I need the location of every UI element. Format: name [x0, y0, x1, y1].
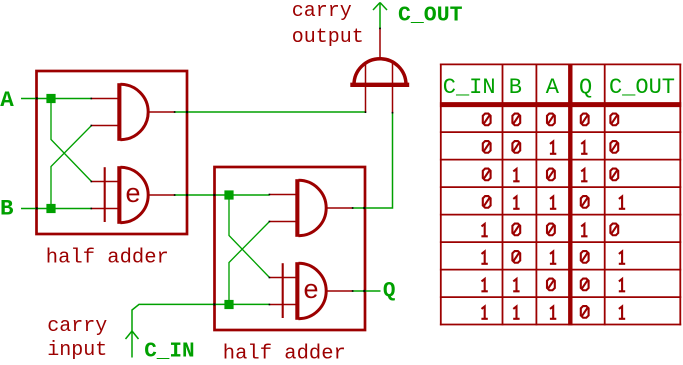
wire net sum1 cross	[229, 195, 270, 278]
wire/pin crossing dots	[36, 28, 394, 306]
XOR gate U1B	[92, 166, 176, 224]
svg-text:input: input	[47, 339, 107, 362]
svg-text:C_IN: C_IN	[144, 340, 194, 363]
svg-text:B: B	[0, 196, 14, 222]
table row 6: 1 0 1 | 0 1	[481, 251, 625, 264]
svg-text:half adder: half adder	[46, 246, 169, 269]
svg-text:carry: carry	[47, 315, 107, 338]
svg-text:carry: carry	[292, 0, 352, 23]
half adder 1 box	[37, 71, 188, 234]
wire XOR1 out to half adder 2	[175, 194, 270, 196]
half adder 2 box	[215, 167, 366, 330]
svg-text:output: output	[292, 26, 364, 49]
svg-text:Q: Q	[383, 280, 396, 303]
table row 7: 1 1 0 | 0 1	[481, 279, 625, 292]
table row 3: 0 1 0 | 1 0	[483, 169, 618, 182]
svg-text:e: e	[125, 181, 141, 211]
svg-text:C_OUT: C_OUT	[609, 75, 675, 100]
wire XOR2 out to Q	[353, 290, 381, 292]
node B junction	[46, 204, 55, 213]
wire C_OUT with arrow	[373, 3, 387, 29]
svg-text:e: e	[303, 277, 319, 307]
wire AND1 out to OR gate	[175, 111, 366, 113]
table header row	[443, 75, 675, 100]
C_IN arrowhead	[126, 331, 139, 339]
svg-text:B: B	[509, 75, 522, 100]
svg-text:Q: Q	[579, 75, 592, 100]
svg-text:half adder: half adder	[223, 342, 346, 365]
table row 8: 1 1 1 | 0 1	[481, 306, 625, 319]
truth table grid	[440, 64, 681, 326]
table row 2: 0 0 1 | 1 0	[483, 141, 618, 154]
AND gate U2A	[270, 179, 354, 237]
wire net B	[21, 126, 92, 209]
table row 5: 1 0 0 | 1 0	[481, 224, 618, 237]
wire AND2 out up to OR gate	[353, 113, 393, 209]
table row 4: 0 1 1 | 0 1	[483, 196, 625, 209]
svg-text:C_OUT: C_OUT	[398, 4, 463, 28]
wire C_IN input with arrow	[132, 304, 270, 357]
wire net carry-in cross	[229, 222, 270, 305]
svg-text:A: A	[0, 87, 14, 113]
node carry-in junction	[224, 300, 233, 309]
svg-text:A: A	[546, 75, 560, 100]
node sum1 junction	[224, 190, 233, 199]
svg-text:C_IN: C_IN	[443, 75, 496, 100]
OR gate U3	[350, 28, 409, 113]
node A junction	[46, 94, 55, 103]
wire net A	[21, 99, 92, 182]
table row 1: 0 0 0 | 0 0	[483, 114, 618, 126]
AND gate U1A	[92, 83, 176, 141]
XOR gate U2B	[270, 262, 354, 320]
